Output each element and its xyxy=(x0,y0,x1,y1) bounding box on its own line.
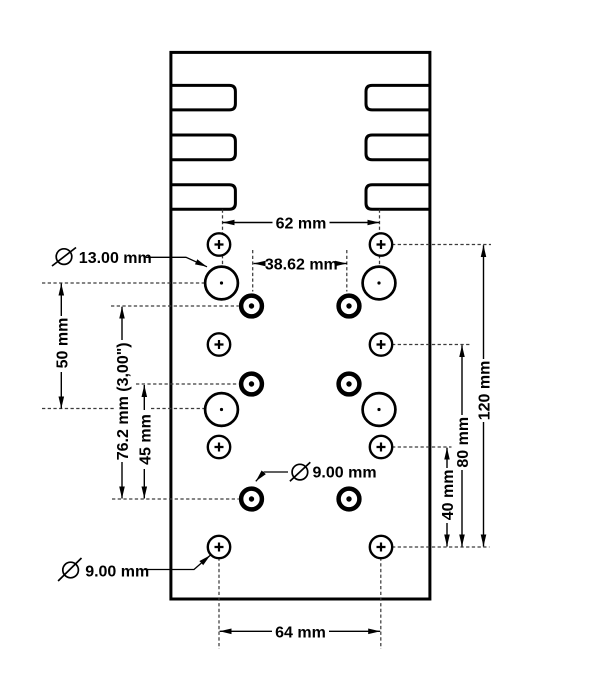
extension line 64mm right xyxy=(380,558,382,650)
hole R2 9mm ring row1-right xyxy=(339,296,360,317)
centerline big circle bottom left b xyxy=(151,408,205,410)
hole B3 13mm bottom-left xyxy=(205,393,238,426)
centerline row4 right xyxy=(392,546,490,548)
label diameter 9.00 mm middle symbol xyxy=(290,462,310,481)
plate outline xyxy=(171,52,430,599)
centerline dashes group xyxy=(42,210,491,650)
hole P7 bottom-left plus xyxy=(208,536,230,558)
centerline big circle bottom left a xyxy=(42,408,114,410)
svg-text:80 mm: 80 mm xyxy=(455,417,472,468)
svg-text:40 mm: 40 mm xyxy=(440,470,457,521)
label diameter 9.00 mm bottom symbol xyxy=(58,558,81,581)
hole B1 13mm top-left xyxy=(205,267,238,300)
label diameter 13.00 mm symbol xyxy=(52,248,76,267)
centerline ring row3 left xyxy=(112,498,239,500)
svg-text:76.2 mm (3,00"): 76.2 mm (3,00") xyxy=(115,342,132,460)
hole B4 13mm bottom-right xyxy=(363,393,396,426)
hole R6 9mm ring row3-right xyxy=(339,489,360,510)
slot right 3 xyxy=(366,185,430,210)
hole R4 9mm ring row2-right xyxy=(339,374,360,395)
dimension 45mm line xyxy=(143,385,145,499)
svg-text:120 mm: 120 mm xyxy=(477,361,494,421)
label diameter 9.00 mm middle leader xyxy=(256,472,288,481)
extension line 38.62mm left xyxy=(252,250,254,292)
dimension 64mm line xyxy=(220,630,381,632)
slot left 2 xyxy=(171,135,236,160)
dimension 76.2mm line xyxy=(121,307,123,499)
centerline big circle top left xyxy=(42,282,205,284)
hole P4 row2-right plus xyxy=(370,333,392,355)
dimension 80mm line xyxy=(461,345,463,546)
hole B2 13mm top-right xyxy=(363,267,396,300)
svg-text:9.00 mm: 9.00 mm xyxy=(313,465,377,482)
extension line 38.62mm right xyxy=(346,250,348,292)
hole P1 top-left plus xyxy=(208,233,230,255)
centerline row2 right xyxy=(392,344,472,346)
hole P2 top-right plus xyxy=(370,233,392,255)
slot left 1 xyxy=(171,85,236,110)
dimension 120mm line xyxy=(483,245,485,546)
dimension 62mm line xyxy=(223,222,380,224)
hole R1 9mm ring row1-left xyxy=(241,296,262,317)
dimension 50mm line xyxy=(60,284,62,409)
hole R5 9mm ring row3-left xyxy=(241,489,262,510)
label diameter 9.00 mm bottom leader xyxy=(144,555,210,569)
svg-text:13.00 mm: 13.00 mm xyxy=(79,250,152,267)
dimension 40mm line xyxy=(446,448,448,547)
hole P8 bottom-right plus xyxy=(370,536,392,558)
dimension 38.62mm line xyxy=(254,263,348,265)
centerline ring row1 left xyxy=(111,305,239,307)
slot right 2 xyxy=(366,135,430,160)
slot right 1 xyxy=(366,85,430,110)
extension line 62mm left xyxy=(222,210,224,266)
svg-text:62 mm: 62 mm xyxy=(276,215,327,232)
slot left 3 xyxy=(171,185,236,210)
svg-text:50 mm: 50 mm xyxy=(54,318,71,369)
svg-text:38.62 mm: 38.62 mm xyxy=(265,256,338,273)
hole P3 row2-left plus xyxy=(208,333,230,355)
extension line 64mm left xyxy=(218,558,220,650)
hole R3 9mm ring row2-left xyxy=(241,374,262,395)
label diameter 13.00 mm leader xyxy=(146,257,207,267)
extension line 62mm right xyxy=(379,210,381,266)
svg-text:9.00 mm: 9.00 mm xyxy=(85,563,149,580)
centerline top row right xyxy=(392,244,491,246)
hole P6 row3-right plus xyxy=(370,436,392,458)
svg-text:45 mm: 45 mm xyxy=(137,414,154,465)
hole P5 row3-left plus xyxy=(208,436,230,458)
svg-text:64 mm: 64 mm xyxy=(275,625,326,642)
centerline row3 right xyxy=(392,446,452,448)
centerline ring row2 left xyxy=(136,383,239,385)
